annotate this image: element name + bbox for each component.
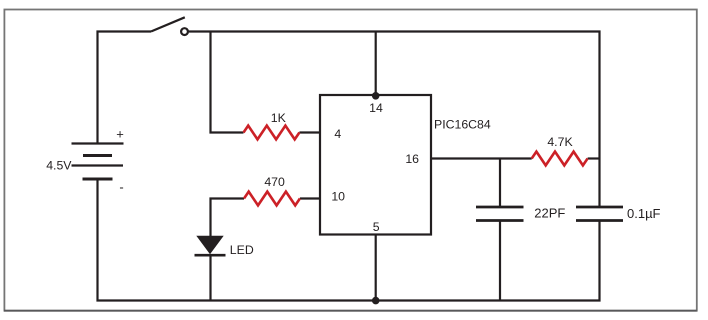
wire: battery - down, bottom ground wire, up to 0.1uF bottom plate bbox=[98, 179, 600, 301]
LED D1 bbox=[195, 236, 226, 256]
wire: 22PF capacitor bottom to ground wire bbox=[499, 221, 501, 301]
wire: 4.7K resistor to right rail bbox=[588, 157, 600, 159]
frame bottom darker edge bbox=[4, 310, 697, 312]
node junction dot at pin 14 bbox=[372, 92, 380, 100]
svg-text:PIC16C84: PIC16C84 bbox=[434, 117, 491, 131]
wire: chip pin 5 down to ground wire bbox=[375, 235, 377, 301]
wire: 470 resistor to chip pin 10 bbox=[300, 197, 320, 199]
op-amp U1 PIC16C84 body bbox=[320, 95, 431, 235]
C1 bottom plate bbox=[476, 219, 524, 222]
svg-text:LED: LED bbox=[230, 243, 254, 257]
svg-text:10: 10 bbox=[331, 189, 345, 203]
svg-text:470: 470 bbox=[264, 175, 285, 189]
battery plate long bbox=[72, 164, 124, 166]
wire: branch from top wire down to 1K resistor (pin 4) bbox=[211, 32, 244, 133]
wire: 470 resistor left corner down to LED anode bbox=[211, 199, 245, 237]
C1 top plate bbox=[476, 206, 524, 209]
LED cathode bar bbox=[195, 254, 226, 257]
capacitor C1 22PF bbox=[476, 207, 524, 221]
switch SW1 lever bbox=[151, 17, 185, 31]
svg-text:1K: 1K bbox=[271, 111, 287, 125]
wire: top wire from switch circle to top-right corner, down right side to 0.1uF top plate bbox=[188, 32, 599, 208]
svg-text:16: 16 bbox=[405, 152, 419, 166]
wire: branch from pin16 wire down to 22PF capacitor bbox=[499, 159, 501, 208]
svg-text:+: + bbox=[116, 127, 124, 142]
wire: battery + up to top-left corner and top wire to switch bbox=[98, 32, 152, 144]
svg-text:4.5V: 4.5V bbox=[46, 159, 72, 173]
wire: LED cathode down to ground wire bbox=[209, 256, 211, 301]
svg-text:4: 4 bbox=[334, 127, 341, 141]
svg-text:-: - bbox=[119, 180, 123, 195]
switch SW1 contact circle bbox=[181, 28, 188, 35]
resistor R1 1K bbox=[244, 126, 300, 140]
C2 top plate bbox=[576, 206, 623, 209]
svg-text:4.7K: 4.7K bbox=[547, 135, 573, 149]
capacitor C2 0.1uF bbox=[576, 207, 623, 221]
svg-text:5: 5 bbox=[373, 220, 380, 234]
battery B1 4.5V bbox=[72, 144, 124, 180]
svg-text:22PF: 22PF bbox=[534, 206, 565, 221]
resistor R3 4.7K bbox=[532, 152, 588, 166]
wire: 1K resistor to chip pin 4 bbox=[299, 131, 320, 133]
LED anode triangle bbox=[196, 236, 223, 255]
svg-text:0.1µF: 0.1µF bbox=[627, 206, 661, 221]
battery plate short bbox=[83, 154, 112, 157]
wire: chip pin 16 to 4.7K resistor bbox=[431, 157, 532, 159]
resistor R2 470 bbox=[244, 192, 300, 206]
wire: top wire down to chip pin 14 bbox=[375, 32, 377, 96]
svg-text:14: 14 bbox=[369, 101, 383, 115]
C2 bottom plate bbox=[576, 219, 623, 222]
node junction dot at ground/pin 5 bbox=[372, 297, 380, 305]
battery plate short bottom (-) bbox=[83, 178, 113, 181]
battery plate long top (+) bbox=[72, 142, 124, 144]
